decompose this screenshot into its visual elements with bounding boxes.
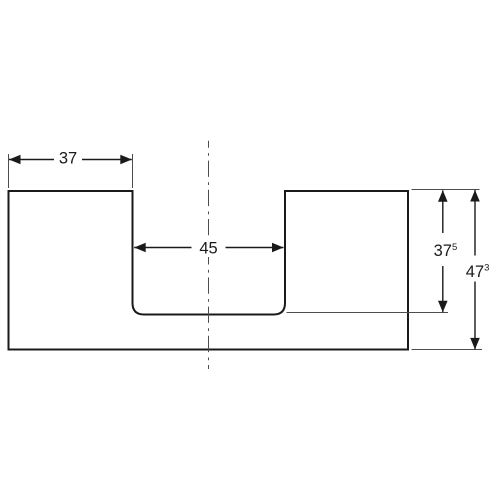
svg-text:37: 37 [59,150,77,168]
svg-text:45: 45 [199,240,217,258]
